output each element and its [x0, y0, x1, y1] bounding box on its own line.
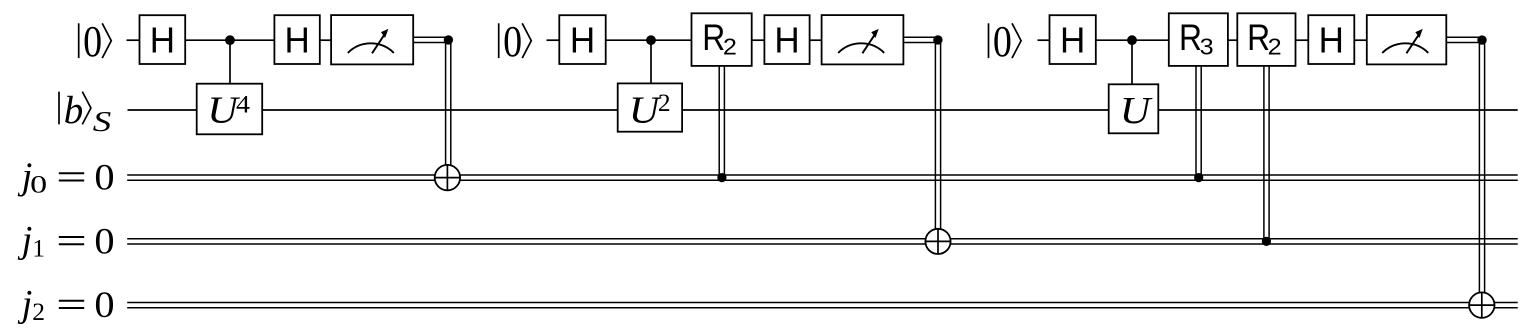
classical wire j0 (double line)	[127, 175, 1518, 180]
XOR on j2 (XOR target)	[1469, 292, 1494, 317]
wire b register |b>_S	[128, 109, 1518, 111]
svg-text:H: H	[570, 20, 595, 61]
label j1 = 0	[17, 219, 115, 262]
gate U (controlled-U power)	[1109, 84, 1159, 133]
control dot on q0 for U^4	[225, 35, 235, 45]
svg-text:H: H	[150, 20, 175, 61]
classical double line from meter M3 to vertical	[1446, 37, 1482, 42]
wire: control line q0 to U	[1131, 40, 1133, 84]
svg-text:0: 0	[94, 221, 114, 262]
gate U^4 (controlled-U power)	[197, 84, 263, 135]
svg-text:1: 1	[32, 233, 45, 262]
svg-text:0: 0	[993, 17, 1012, 66]
svg-text:2: 2	[658, 88, 671, 117]
svg-text:R: R	[1247, 17, 1270, 58]
svg-text:0: 0	[503, 17, 522, 66]
svg-text:0: 0	[83, 17, 102, 66]
svg-text:3: 3	[1200, 33, 1214, 59]
svg-text:2: 2	[1268, 33, 1282, 59]
gate H2 block3 (Hadamard)	[1308, 15, 1354, 64]
gate H1 block1 (Hadamard)	[140, 15, 186, 64]
label ket |0> block 3	[989, 17, 1022, 66]
XOR on j0 (XOR target)	[435, 165, 460, 190]
control dot on q0 for U^2	[646, 35, 656, 45]
svg-text:j: j	[17, 283, 33, 325]
wire q0 top qubit, block 1 segments	[127, 39, 332, 41]
classical vertical: j0 controls R3 (block 3)	[1196, 66, 1201, 178]
classical vertical: M3 result to XOR on j2	[1479, 40, 1484, 292]
label ket |0> block 2	[499, 17, 532, 66]
svg-text:H: H	[774, 20, 799, 61]
svg-text:b: b	[64, 89, 84, 132]
gate H1 block2 (Hadamard)	[559, 15, 605, 64]
svg-text:H: H	[1060, 20, 1085, 61]
label |b>_S register	[59, 89, 111, 138]
classical vertical: M2 result to XOR on j1	[935, 40, 940, 229]
gate U^2 (controlled-U power)	[618, 83, 682, 131]
XOR on j1 (XOR target)	[925, 229, 950, 254]
svg-text:H: H	[284, 20, 309, 61]
svg-text:R: R	[702, 17, 725, 58]
svg-text:U: U	[1120, 90, 1153, 132]
label ket |0> block 1	[79, 17, 112, 66]
svg-text:2: 2	[723, 33, 737, 59]
classical vertical: j1 controls R2 (block 3)	[1264, 66, 1269, 242]
gate R3 block3 (controlled phase rotation R_3)	[1169, 13, 1228, 66]
classical double line from meter M2 to vertical	[903, 37, 938, 42]
classical wire j1 (double line)	[127, 239, 1518, 244]
svg-text:0: 0	[94, 285, 114, 326]
svg-text:2: 2	[32, 297, 45, 326]
measurement M2 (meter)	[822, 15, 904, 64]
gate R2 block3 (controlled phase rotation R_2)	[1237, 13, 1295, 66]
classical junction dot after M3	[1477, 35, 1486, 44]
control dot on q0 for U	[1127, 35, 1137, 45]
measurement M3 (meter)	[1367, 15, 1447, 64]
label j0 = 0	[17, 155, 115, 198]
gate H1 block3 (Hadamard)	[1050, 15, 1096, 64]
wire: control line q0 to U^4	[229, 40, 231, 83]
label j2 = 0	[17, 283, 115, 326]
svg-text:R: R	[1179, 17, 1202, 58]
gate H2 block1 (Hadamard)	[274, 15, 319, 64]
classical vertical: M1 result to XOR on j0	[446, 40, 451, 165]
classical wire j2 (double line)	[127, 303, 1518, 308]
classical junction dot after M2	[933, 35, 942, 44]
wire q0 top qubit, block 2 segments	[547, 39, 822, 41]
classical control dot on j0 for R3	[1194, 173, 1203, 182]
svg-text:H: H	[1319, 20, 1344, 61]
classical control dot on j0 for R2	[717, 173, 726, 182]
svg-text:S: S	[93, 107, 112, 138]
classical junction dot after M1	[444, 35, 453, 44]
classical control dot on j1 for R2	[1262, 237, 1271, 246]
svg-text:0: 0	[94, 158, 114, 199]
svg-text:j: j	[17, 219, 33, 261]
gate H2 block2 (Hadamard)	[764, 15, 809, 64]
svg-text:4: 4	[236, 90, 250, 119]
wire q0 top qubit, block 3 segments	[1038, 39, 1367, 41]
svg-text:0: 0	[30, 170, 47, 199]
classical double line from meter M1 to vertical	[413, 37, 448, 42]
gate R2 block2 (controlled phase rotation R_2)	[692, 13, 752, 66]
classical vertical: j0 controls R2 (block 2)	[719, 66, 724, 178]
wire: control line q0 to U^2	[650, 40, 652, 83]
measurement M1 (meter)	[331, 15, 413, 64]
